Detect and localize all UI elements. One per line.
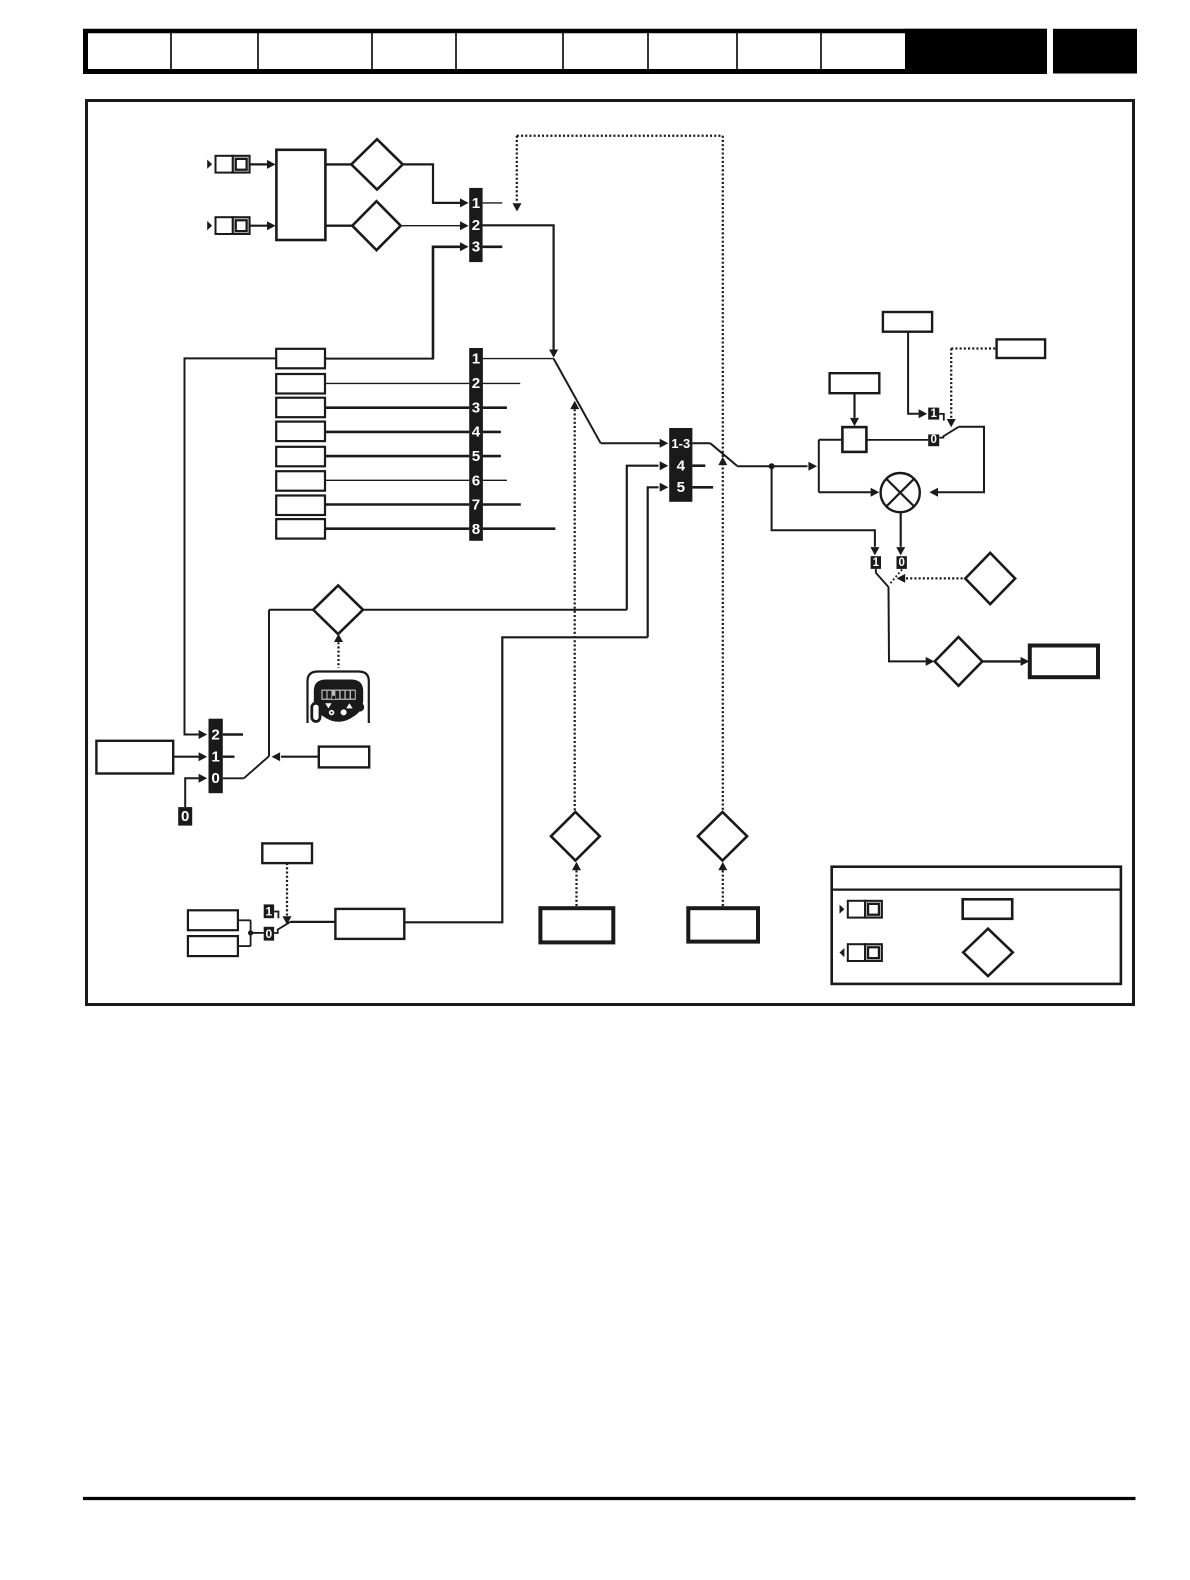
wire: preset 7 to bar xyxy=(325,503,469,506)
svg-text:2: 2 xyxy=(211,727,219,744)
svg-text:5: 5 xyxy=(472,448,481,465)
keypad monitor diamond xyxy=(313,586,363,635)
dotted control for switch-1 xyxy=(570,401,579,409)
diagram outer frame xyxy=(87,101,1134,1005)
switch blade (top right) xyxy=(939,427,959,438)
legend: RW parameter box xyxy=(963,899,1013,919)
switch-2: selected reference out xyxy=(692,442,710,444)
svg-text:0: 0 xyxy=(930,434,936,446)
svg-text:8: 8 xyxy=(472,521,480,538)
stub: out 1 xyxy=(223,756,235,758)
dotted: keypad to diamond xyxy=(334,634,343,642)
svg-text:6: 6 xyxy=(472,472,480,489)
dotted control from run diamond xyxy=(906,577,965,579)
header: highlighted (black) tab xyxy=(905,29,1047,74)
wire to update box xyxy=(291,921,336,923)
wire: T2 to A/D box xyxy=(250,163,268,165)
wire: into keypad bar input 2 xyxy=(185,734,199,736)
svg-text:1: 1 xyxy=(873,557,880,569)
reference selector bar (1-3, 4, 5) xyxy=(669,428,692,502)
slew-rate block xyxy=(842,427,866,452)
contact "1" xyxy=(871,556,881,569)
dotted control: vertical run to mode diamond xyxy=(722,136,724,812)
stub: preset bar out 8 xyxy=(483,527,556,530)
parameter box (max freq clamp) xyxy=(883,312,932,332)
precision mode box xyxy=(262,843,312,863)
dotted control down to switch-5 xyxy=(286,863,288,916)
zero constant xyxy=(178,807,192,826)
wire: preset 3 to bar xyxy=(325,406,469,409)
svg-text:2: 2 xyxy=(472,217,480,234)
mode diamond (analog ref 1 mode) xyxy=(351,139,402,189)
bracket join xyxy=(238,919,251,921)
svg-text:2: 2 xyxy=(472,375,480,392)
select contact "1" xyxy=(928,408,939,420)
wire: switch-3 common to output diamond xyxy=(889,587,927,661)
svg-text:1: 1 xyxy=(472,351,481,368)
switch-4: out 0 and blade xyxy=(223,777,244,779)
dotted control arrow for switch-2 xyxy=(718,457,727,465)
junction dot xyxy=(248,930,253,935)
wire: diamond1 to selector input 1 xyxy=(403,164,461,203)
svg-text:4: 4 xyxy=(472,424,481,441)
wire: multiplier out down to "0" xyxy=(900,512,902,547)
wire: diamond to output box xyxy=(982,660,1020,662)
stub: preset bar out 6 xyxy=(483,479,507,481)
junction dot xyxy=(769,463,775,469)
svg-text:1: 1 xyxy=(472,195,481,212)
contact "0" xyxy=(264,927,274,941)
wire: keypad net up to input 4 xyxy=(627,466,659,610)
keypad control box (Pr) xyxy=(96,741,173,774)
keypad selector bar (2,1,0) xyxy=(209,719,223,794)
sequencer mode diamond xyxy=(698,812,747,861)
legend box xyxy=(832,867,1121,984)
multiplier xyxy=(881,473,920,512)
svg-text:7: 7 xyxy=(472,497,480,514)
svg-text:3: 3 xyxy=(472,399,480,416)
wire: box down to "1" select xyxy=(908,332,918,414)
svg-text:0: 0 xyxy=(211,770,219,787)
wire loop: left vertical xyxy=(818,440,820,493)
output scaling diamond xyxy=(935,637,983,686)
select contact "0" xyxy=(928,434,939,446)
input terminal T2 (analog input 1) xyxy=(207,160,212,169)
wire: switch-4 common up to monitor diamond xyxy=(268,610,270,756)
header: page number block xyxy=(1053,29,1137,74)
wire: diamond2 to selector input 2 xyxy=(401,225,462,227)
legend: RO parameter diamond xyxy=(963,929,1013,976)
wire: switch-1 to bar 1-3 input xyxy=(601,442,660,444)
preset box 2 (Pr) xyxy=(276,374,325,394)
wire: preset 4 to bar xyxy=(325,431,469,434)
wire: preset1 branch to keypad bar xyxy=(185,357,277,359)
legend: input terminal symbol xyxy=(840,905,845,914)
mode diamond (analog ref 2 mode) xyxy=(352,201,400,250)
stub: selector out 1 xyxy=(483,202,503,204)
preset box 5 (Pr) xyxy=(276,447,325,467)
keypad adjust box xyxy=(319,747,369,768)
preset box 7 (Pr) xyxy=(276,496,325,516)
wire: precision net up to input 5 xyxy=(648,487,659,637)
svg-text:0: 0 xyxy=(898,557,904,569)
preset box 1 (Pr) xyxy=(276,349,325,369)
selector bar A1.A2.Pr (inputs 1,2,3) xyxy=(469,188,482,262)
wire: slew block to "0" contact xyxy=(866,439,928,441)
parameter box (bipolar select) xyxy=(997,339,1046,358)
stub: preset bar out 2 xyxy=(483,382,520,384)
svg-text:0: 0 xyxy=(266,927,273,941)
switch-5 blade xyxy=(274,922,291,933)
run mode diamond xyxy=(965,553,1015,604)
stub: preset bar out 7 xyxy=(483,503,521,506)
header tab bar xyxy=(86,31,1046,73)
svg-text:5: 5 xyxy=(677,479,686,496)
wire: bottom into multiplier left xyxy=(819,491,871,493)
wire: preset 6 to bar xyxy=(325,479,469,481)
svg-text:1-3: 1-3 xyxy=(671,436,690,451)
precision fine box xyxy=(188,936,238,956)
switch-1 blade xyxy=(554,359,601,444)
wire: switch common down to multiplier xyxy=(938,427,985,493)
wire: A/D to mode diamond 2 xyxy=(325,224,352,226)
stub: preset bar out 5 xyxy=(483,455,501,458)
preset selector bar (1-8) xyxy=(469,348,483,541)
svg-text:1: 1 xyxy=(211,749,220,766)
wire: update box to input-5 riser xyxy=(404,637,647,922)
stub: preset bar out 3 xyxy=(483,406,507,409)
contact "0" xyxy=(897,556,907,569)
stub: out 2 xyxy=(223,733,243,735)
contact "1" xyxy=(264,904,274,918)
wire: preset 2 to bar xyxy=(325,382,469,384)
stub: selector out 3 xyxy=(483,246,503,249)
dotted control to top-right switch xyxy=(951,347,996,349)
precision update box xyxy=(335,909,404,939)
parameter box (skip/jog) xyxy=(830,373,880,393)
svg-text:0: 0 xyxy=(181,808,189,825)
pre-ramp reference box (RO) xyxy=(1030,646,1098,678)
wire: box to input 1 xyxy=(173,756,198,758)
wire: preset 8 to bar xyxy=(325,527,469,530)
reference-enabled diamond xyxy=(551,812,600,861)
preset box 6 (Pr) xyxy=(276,471,325,491)
wire: T4 to A/D box xyxy=(250,225,268,227)
hook from "1" xyxy=(939,414,944,421)
wire: diamond to input-4 riser xyxy=(363,609,627,611)
svg-text:1: 1 xyxy=(266,905,273,919)
wire: box down into slew block xyxy=(853,393,855,417)
stub: preset bar out 4 xyxy=(483,431,501,434)
preset box 3 (Pr) xyxy=(276,398,325,418)
stub: out 4 xyxy=(692,464,705,467)
wire: selector out 2 to switch-1 xyxy=(483,225,554,349)
footer rule xyxy=(83,1497,1136,1500)
wire: junction down to switch-3 input 1 xyxy=(772,466,875,547)
control word box (RO) xyxy=(688,908,758,941)
A/D converter box xyxy=(276,150,325,240)
dotted control: mode net to reference selector xyxy=(516,136,518,201)
wire: zero to input 0 xyxy=(185,778,198,807)
precision coarse box xyxy=(188,910,238,930)
preset box 8 (Pr) xyxy=(276,519,325,539)
preset box 4 (Pr) xyxy=(276,422,325,442)
wire: preset1 to junction x433 xyxy=(325,358,434,360)
stub: out 5 xyxy=(692,486,713,489)
keypad (drive front panel) xyxy=(308,672,369,724)
stub: preset bar out 1 to switch-1 pivot xyxy=(483,358,554,360)
svg-text:4: 4 xyxy=(677,458,686,475)
svg-text:3: 3 xyxy=(472,239,480,256)
svg-text:1: 1 xyxy=(930,408,937,420)
input terminal T4 (analog input 2) xyxy=(207,221,212,230)
wire: keypad box feed xyxy=(281,756,319,758)
switch-3 alt blade (dotted from 0) xyxy=(889,570,902,585)
switch-3 blade (solid from 1) xyxy=(876,569,889,587)
legend: output terminal symbol xyxy=(840,948,845,957)
wire: A/D to mode diamond 1 xyxy=(325,163,351,165)
wire: preset 5 to bar xyxy=(325,455,469,458)
status word box (RO) xyxy=(540,908,613,942)
wire: preset line up to selector input 3 xyxy=(433,247,461,359)
